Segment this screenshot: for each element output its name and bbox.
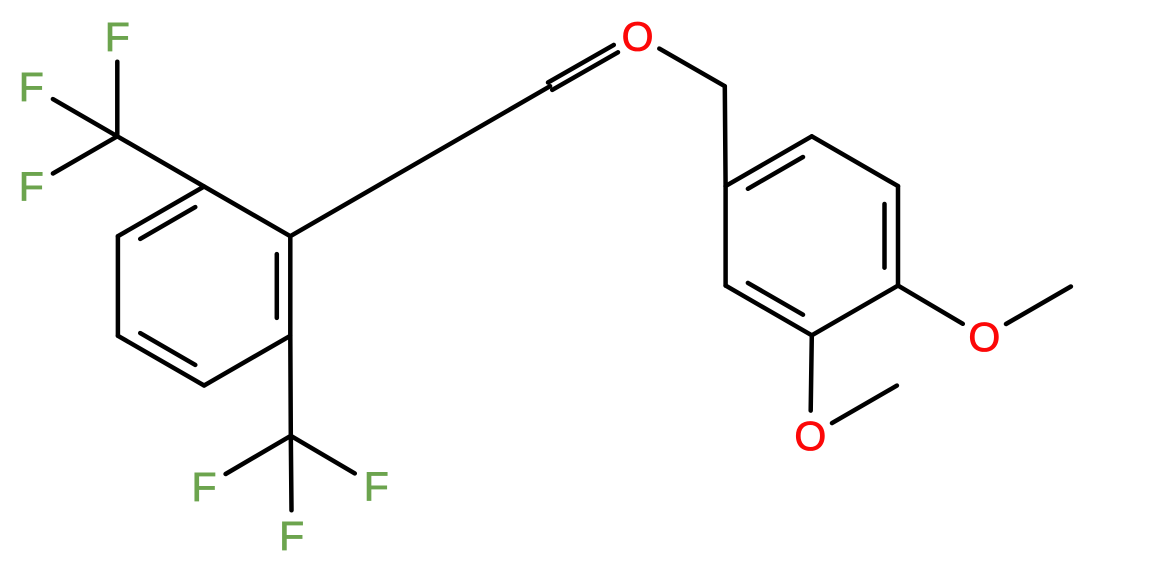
- right ring edge C2'-C3': [812, 136, 898, 186]
- C-F bond to F4: [226, 436, 291, 474]
- svg-text:F: F: [191, 464, 216, 510]
- left ring double bond C6-C1 inner line: [140, 207, 195, 239]
- bond ring C4' to OMe oxygen: [898, 286, 963, 324]
- right ring edge C1'-C2': [726, 136, 812, 186]
- left ring edge C2-C3: [288, 236, 293, 336]
- svg-text:F: F: [19, 64, 44, 110]
- bond OMe oxygen to methyl C: [1006, 287, 1071, 325]
- left ring edge C1-C2: [204, 187, 290, 237]
- svg-text:O: O: [622, 14, 654, 60]
- C-F bond to F6: [289, 436, 294, 511]
- svg-text:O: O: [968, 314, 1000, 360]
- left ring edge C6-C1: [118, 187, 204, 237]
- bond ring C3 to CF3 carbon (bottom): [288, 336, 293, 436]
- left ring double bond C4-C5 inner line: [140, 333, 195, 365]
- right ring double bond C5'-C6' inner line: [748, 283, 803, 315]
- left ring edge C5-C6: [116, 236, 121, 336]
- left ring edge C4-C5: [118, 336, 204, 386]
- C-F bond to F1: [115, 62, 120, 137]
- left ring edge C3-C4: [204, 336, 290, 386]
- C-F bond to F3: [53, 136, 117, 173]
- right ring edge C5'-C6': [726, 286, 812, 336]
- svg-text:F: F: [19, 164, 44, 210]
- double-line segment apex C=O/C-O to oxygen label: [548, 45, 614, 83]
- long chain single line ring C2 to apex carbon: [290, 86, 550, 236]
- right ring double bond C3'-C4' inner line: [882, 204, 887, 268]
- bond ring C1 to CF3 carbon (top-left): [117, 136, 204, 186]
- C-F bond to F5: [291, 436, 355, 474]
- svg-text:F: F: [279, 513, 304, 559]
- svg-text:F: F: [105, 14, 130, 60]
- svg-text:F: F: [364, 464, 389, 510]
- bond OMe oxygen to methyl C: [832, 386, 897, 424]
- right ring double bond C1'-C2' inner line: [748, 157, 803, 189]
- C-F bond to F2: [53, 99, 117, 136]
- bond ring C5' to OMe oxygen: [811, 335, 812, 410]
- left ring double bond C2-C3 inner line: [275, 254, 280, 318]
- right ring edge C3'-C4': [896, 186, 901, 286]
- bond O label to CH2 kink carbon: [659, 49, 725, 87]
- right ring edge C4'-C5': [812, 286, 898, 336]
- svg-text:O: O: [794, 413, 826, 459]
- vertical bond CH2 kink to right ring C1': [723, 86, 728, 186]
- right ring edge C6'-C1': [723, 186, 728, 286]
